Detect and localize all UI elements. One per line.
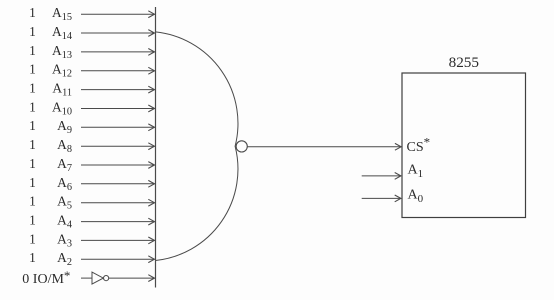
- svg-text:A7: A7: [57, 156, 72, 174]
- svg-text:1: 1: [29, 24, 36, 39]
- svg-text:A15: A15: [52, 5, 72, 23]
- svg-text:1: 1: [29, 43, 36, 58]
- svg-text:1: 1: [29, 156, 36, 171]
- svg-text:A0: A0: [408, 188, 424, 206]
- svg-text:1: 1: [29, 175, 36, 190]
- svg-text:A1: A1: [408, 163, 424, 181]
- svg-text:A3: A3: [57, 231, 72, 249]
- svg-text:1: 1: [29, 62, 36, 77]
- svg-text:A9: A9: [57, 118, 72, 136]
- svg-text:A4: A4: [57, 213, 72, 231]
- svg-text:A2: A2: [57, 250, 72, 268]
- svg-text:A10: A10: [52, 99, 72, 117]
- svg-text:A8: A8: [57, 137, 72, 155]
- svg-text:A12: A12: [52, 62, 72, 80]
- svg-text:8255: 8255: [449, 54, 479, 71]
- svg-text:1: 1: [29, 213, 36, 228]
- svg-text:0 IO/M*: 0 IO/M*: [22, 268, 70, 287]
- svg-text:A6: A6: [57, 175, 72, 193]
- svg-text:1: 1: [29, 231, 36, 246]
- svg-text:1: 1: [29, 250, 36, 265]
- svg-text:1: 1: [29, 118, 36, 133]
- svg-text:1: 1: [29, 81, 36, 96]
- svg-text:A11: A11: [52, 81, 72, 99]
- svg-text:A5: A5: [57, 194, 72, 212]
- svg-text:A13: A13: [52, 43, 72, 61]
- svg-text:1: 1: [29, 194, 36, 209]
- svg-text:1: 1: [29, 99, 36, 114]
- svg-text:1: 1: [29, 137, 36, 152]
- svg-text:A14: A14: [52, 24, 72, 42]
- svg-text:1: 1: [29, 5, 36, 20]
- svg-text:CS*: CS*: [407, 134, 431, 155]
